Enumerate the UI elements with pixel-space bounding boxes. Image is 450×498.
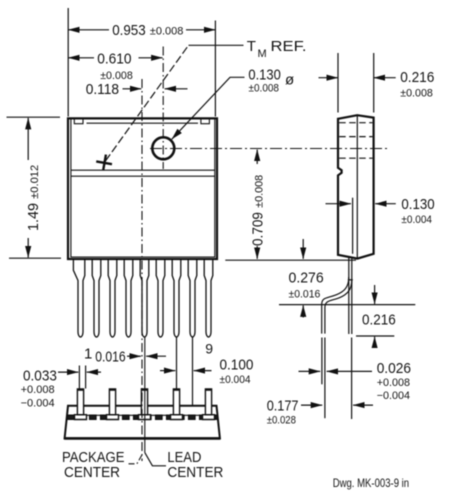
package centerline elbow to label xyxy=(127,455,142,464)
svg-text:0.216: 0.216 xyxy=(362,312,396,329)
lead 3 (front view) xyxy=(108,259,117,337)
side view interior line full xyxy=(356,115,358,257)
bottom view standoff teeth row xyxy=(68,415,218,419)
hidden hole dashed lines xyxy=(339,123,372,159)
bottom view bottom edge xyxy=(64,437,220,440)
tab step line upper xyxy=(71,169,215,171)
bottom view pin 5 tip cap xyxy=(141,389,147,391)
dimension 0.026 xyxy=(299,338,373,420)
side view xyxy=(322,115,374,334)
bottom view pin 9 tip cap xyxy=(205,389,211,391)
svg-text:±0.004: ±0.004 xyxy=(401,214,432,226)
bottom view pin 3 xyxy=(109,389,115,415)
body bottom extension line xyxy=(225,259,356,261)
bottom view pin 3 foot xyxy=(107,415,119,420)
LEAD CENTER leader xyxy=(145,453,166,466)
lead 7 (front view) xyxy=(172,259,181,337)
left index notch xyxy=(74,120,83,124)
lead 1 (front view) xyxy=(73,259,84,337)
lead center line xyxy=(144,338,146,453)
centerlines xyxy=(127,47,391,464)
mounting hole xyxy=(152,137,174,159)
bottom view mold step line xyxy=(67,414,219,416)
hole horizontal centerline xyxy=(150,148,390,150)
svg-text:Dwg. MK-003-9 in: Dwg. MK-003-9 in xyxy=(333,476,409,490)
TM REF leader xyxy=(106,45,244,161)
hole diameter leader 0.130 xyxy=(172,77,245,139)
bottom view pin 7 foot xyxy=(171,415,183,420)
svg-text:1.49 ±0.012: 1.49 ±0.012 xyxy=(25,165,42,231)
svg-text:+0.008: +0.008 xyxy=(377,377,410,389)
svg-text:0.016: 0.016 xyxy=(95,348,125,365)
svg-text:0.026: 0.026 xyxy=(377,360,411,377)
svg-text:±0.008: ±0.008 xyxy=(249,82,280,94)
svg-text:0.709 ±0.008: 0.709 ±0.008 xyxy=(250,175,267,246)
svg-text:−0.004: −0.004 xyxy=(377,390,410,402)
svg-text:ø: ø xyxy=(285,71,294,88)
svg-text:0.276: 0.276 xyxy=(289,270,324,287)
side bent lead xyxy=(322,277,352,334)
bottom view xyxy=(64,389,220,438)
svg-text:0.953: 0.953 xyxy=(112,22,146,39)
bottom view body outline xyxy=(65,406,220,439)
svg-text:9: 9 xyxy=(205,340,213,356)
svg-text:±0.008: ±0.008 xyxy=(100,70,133,82)
dimension 0.216 top xyxy=(319,53,396,113)
bottom view pin 7 xyxy=(173,389,179,415)
svg-text:±0.008: ±0.008 xyxy=(400,88,433,100)
svg-text:1: 1 xyxy=(84,345,92,362)
front view leads xyxy=(73,259,212,337)
right index notch xyxy=(201,120,210,124)
lead 8 (front view) xyxy=(188,259,197,337)
dimension 0.016 xyxy=(127,355,166,357)
svg-text:−0.004: −0.004 xyxy=(21,397,55,409)
front view inner edge lines xyxy=(71,120,215,258)
dimension 0.118 xyxy=(123,88,188,90)
bottom view pin 3 tip cap xyxy=(109,389,115,391)
TM reference cross mark xyxy=(95,153,113,171)
svg-text:CENTER: CENTER xyxy=(167,464,223,481)
svg-text:REF.: REF. xyxy=(271,38,307,55)
package vertical centerline xyxy=(141,79,143,461)
tab flange bottom edge xyxy=(87,122,199,124)
side straight lead xyxy=(349,257,352,335)
dimension 0.216 lower xyxy=(374,285,376,348)
tab step line lower xyxy=(71,175,215,177)
lead 5 (front view) xyxy=(140,259,149,337)
lead 2 (front view) xyxy=(92,259,101,337)
svg-text:0.130: 0.130 xyxy=(248,67,280,84)
svg-text:0.216: 0.216 xyxy=(400,69,434,86)
svg-text:0.610: 0.610 xyxy=(97,50,131,67)
dimension 0.130 right xyxy=(326,203,396,205)
svg-text:T: T xyxy=(247,38,256,55)
bottom view pin 5 foot xyxy=(139,415,151,420)
dimension 1.49 left xyxy=(7,117,62,258)
bottom view pin 9 foot xyxy=(203,415,215,420)
dimension 0.709 xyxy=(256,150,258,259)
dimension 0.276 xyxy=(302,239,304,318)
svg-text:0.130: 0.130 xyxy=(401,196,434,213)
dimension 0.610 xyxy=(68,57,162,59)
side view body outline xyxy=(338,115,374,258)
seating plane line xyxy=(279,304,415,306)
svg-text:M: M xyxy=(258,48,267,60)
svg-text:±0.004: ±0.004 xyxy=(220,374,251,386)
svg-text:0.118: 0.118 xyxy=(86,81,119,98)
dimension 0.100 xyxy=(160,338,212,407)
bottom view pin 7 tip cap xyxy=(173,389,179,391)
bottom view pin 1 foot xyxy=(75,415,87,420)
bottom view pin 1 xyxy=(77,389,83,415)
lead 6 (front view) xyxy=(156,259,165,337)
bottom view pin 5 xyxy=(141,389,147,415)
side lead bend tick xyxy=(348,279,353,281)
svg-text:0.177: 0.177 xyxy=(267,397,299,414)
dimension 0.953 xyxy=(68,8,215,117)
svg-text:+0.008: +0.008 xyxy=(21,384,55,396)
lead 9 (front view) xyxy=(204,259,213,337)
svg-text:±0.028: ±0.028 xyxy=(267,415,296,427)
svg-text:±0.016: ±0.016 xyxy=(289,289,321,301)
lead 4 (front view) xyxy=(124,259,133,337)
dimension 0.033 xyxy=(58,366,101,389)
svg-text:0.100: 0.100 xyxy=(220,356,254,373)
side view interior line short xyxy=(352,198,354,254)
svg-text:CENTER: CENTER xyxy=(64,464,120,481)
front view body outline xyxy=(68,118,217,259)
dimension 0.177 xyxy=(301,404,373,406)
lead tip level line xyxy=(356,335,394,337)
bottom view pin 9 xyxy=(205,389,211,415)
hole vertical centerline xyxy=(162,47,164,170)
svg-text:±0.008: ±0.008 xyxy=(150,26,184,38)
svg-text:0.033: 0.033 xyxy=(23,367,57,384)
bottom view pin 1 tip cap xyxy=(77,389,83,391)
